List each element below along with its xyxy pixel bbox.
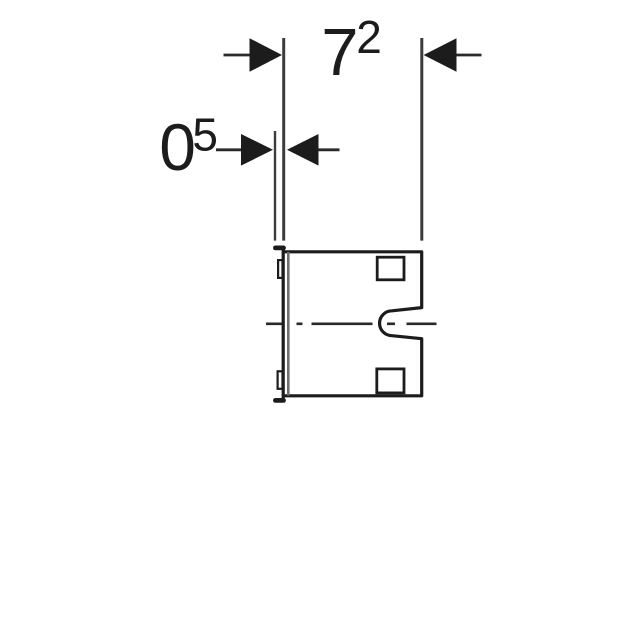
dimension 7.2 left extension line xyxy=(282,38,285,241)
plate top clip tab xyxy=(278,260,282,278)
bottom square hole xyxy=(377,369,404,393)
dimension 0.5 left arrowhead xyxy=(241,134,273,166)
svg-text:0: 0 xyxy=(159,110,196,184)
bracket body outline with U-notch xyxy=(283,252,422,396)
svg-text:2: 2 xyxy=(356,11,382,63)
dimension 7.2 right arrowhead xyxy=(424,38,457,72)
mounting plate vertical line xyxy=(282,248,285,401)
dimension 7.2 left arrowhead xyxy=(250,38,283,72)
plate bottom hook xyxy=(275,398,283,403)
dimension 0.5 right arrow tail xyxy=(316,148,340,151)
dimension 7.2 right extension line xyxy=(420,38,423,241)
top square hole xyxy=(377,257,404,280)
svg-text:5: 5 xyxy=(192,109,218,161)
dimension 0.5 left arrow tail xyxy=(216,148,243,151)
body left inner edge (gray) xyxy=(287,252,290,396)
plate bottom clip tab xyxy=(278,371,283,389)
plate top hook xyxy=(275,245,283,250)
dimension 7.2 left arrow tail xyxy=(224,54,253,57)
svg-text:7: 7 xyxy=(321,15,358,90)
dimension 0.5 left extension line xyxy=(274,131,276,241)
dimension 0.5 right arrowhead xyxy=(287,134,319,166)
centerline dash-dot xyxy=(266,322,437,325)
dimension 7.2 right arrow tail xyxy=(455,54,482,57)
